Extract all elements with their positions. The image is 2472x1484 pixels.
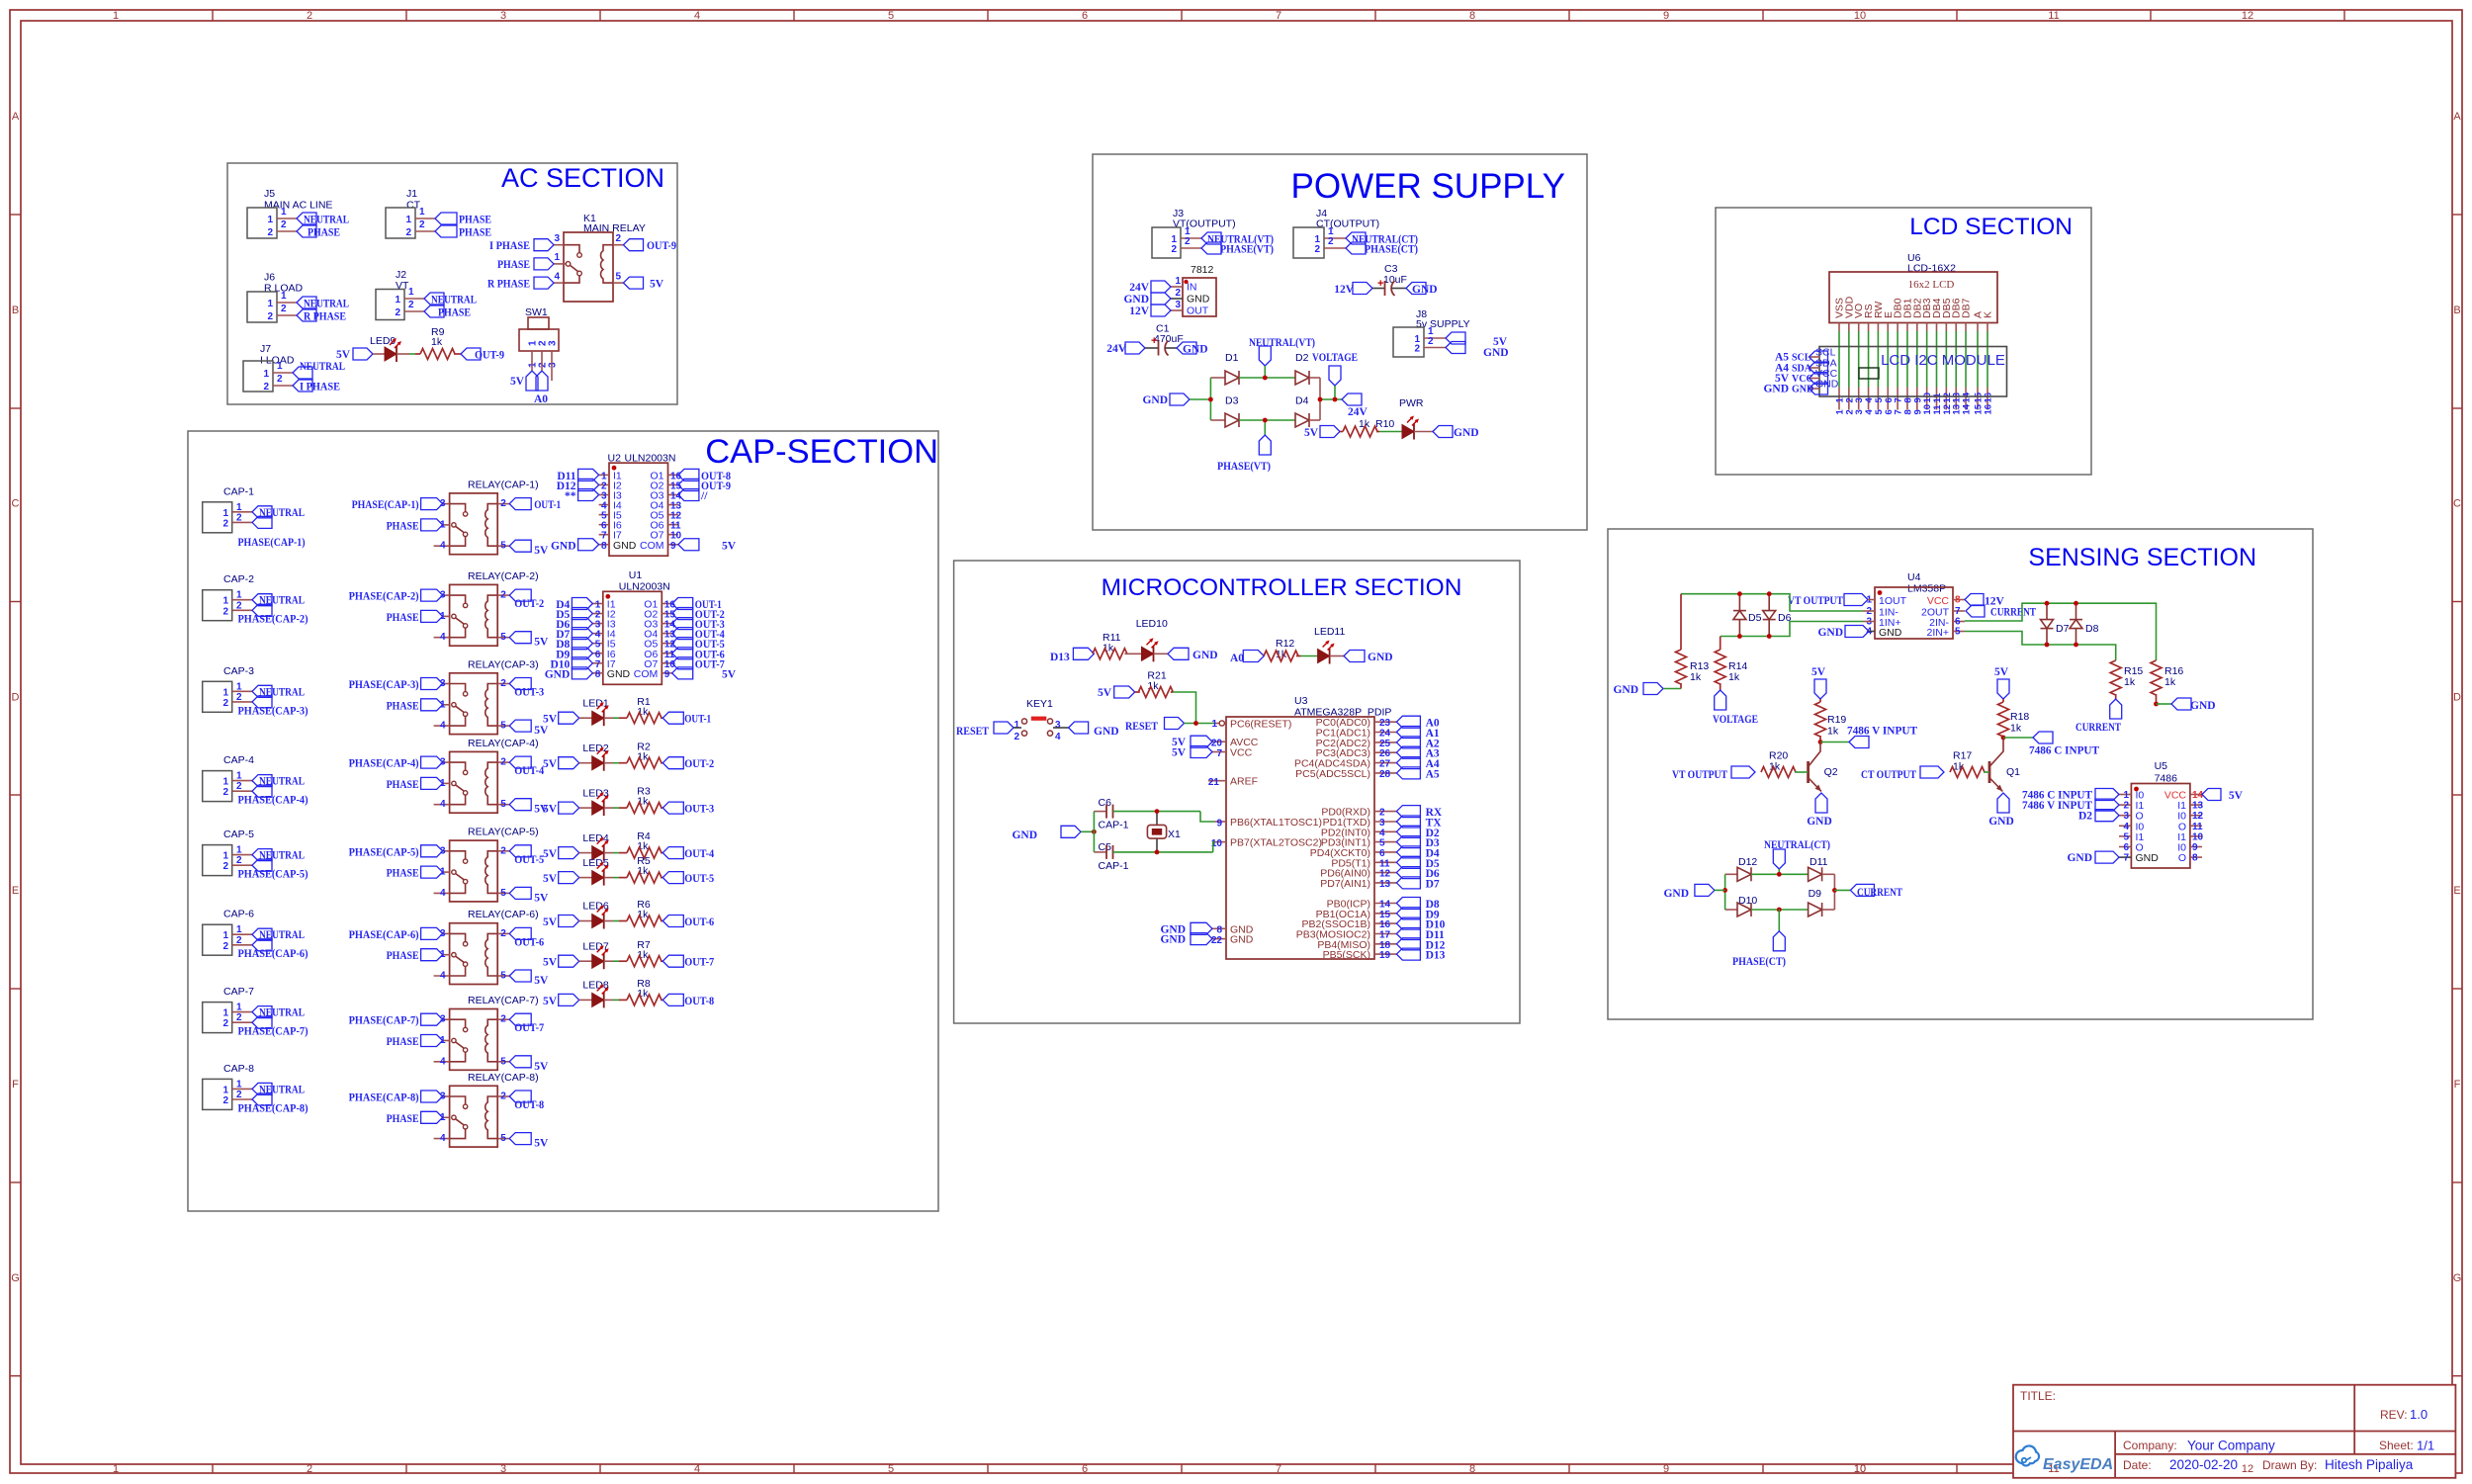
svg-text:VCC: VCC [1230, 747, 1253, 759]
RELAY(CAP-5) pin 4 [434, 892, 450, 894]
svg-text:4: 4 [440, 541, 446, 552]
svg-text:5V: 5V [1304, 427, 1319, 439]
I2C module pin SCL [1810, 356, 1820, 358]
svg-text:AREF: AREF [1230, 776, 1258, 788]
I2C module pin 9 stub [1916, 388, 1918, 410]
resistor R7 [619, 960, 627, 962]
svg-text:5: 5 [888, 10, 894, 22]
svg-text:2: 2 [616, 233, 622, 244]
svg-text:8: 8 [595, 669, 601, 680]
LED8 [592, 993, 604, 1006]
svg-text:2: 2 [236, 935, 242, 946]
svg-text:R19: R19 [1827, 714, 1846, 726]
net flag OUT-1 (U1.16) [672, 598, 693, 610]
svg-text:GND: GND [1160, 934, 1186, 946]
svg-text:RELAY(CAP-8): RELAY(CAP-8) [468, 1072, 539, 1084]
svg-text:PHASE(CAP-4): PHASE(CAP-4) [349, 758, 419, 770]
wire [1869, 631, 1875, 633]
svg-text:OUT-6: OUT-6 [514, 936, 544, 948]
EasyEDA logo [2016, 1445, 2039, 1465]
I2C module pin 1 stub [1838, 388, 1840, 410]
svg-text:1/1: 1/1 [2417, 1439, 2434, 1453]
wire [613, 877, 619, 879]
svg-text:4: 4 [1055, 732, 1061, 742]
svg-text:2: 2 [307, 10, 312, 22]
U3 pin 3 (PD1(TXD)) [1374, 821, 1396, 823]
svg-text:D11: D11 [1810, 856, 1828, 868]
U2 pin 16 (O1) [668, 474, 678, 476]
svg-text:U3: U3 [1294, 695, 1308, 707]
svg-text:1: 1 [1211, 719, 1217, 730]
svg-text:D2: D2 [2078, 811, 2092, 823]
svg-text:LED10: LED10 [1136, 618, 1168, 630]
U1 pin 15 (O2) [662, 613, 671, 615]
U3 pin 28 (PC5(ADC5SCL)) [1374, 772, 1396, 774]
svg-text:PHASE(CT): PHASE(CT) [1365, 244, 1418, 256]
RELAY(CAP-7) pin 4 [434, 1061, 450, 1063]
net flag NEUTRAL (CAP-4.1) [252, 775, 272, 787]
svg-text:NEUTRAL: NEUTRAL [300, 361, 345, 373]
svg-text:PHASE(CAP-2): PHASE(CAP-2) [238, 614, 309, 626]
SW1 pin 2 [541, 351, 543, 362]
svg-text:Drawn By:: Drawn By: [2262, 1458, 2317, 1472]
U2 pin 15 (O2) [668, 483, 678, 485]
net flag PHASE(CAP-7) (CAP-7.2) [252, 1016, 272, 1028]
frame column ticks [212, 10, 214, 21]
svg-text:10: 10 [1854, 10, 1866, 22]
J1 pin 2 [415, 230, 435, 232]
svg-text:8: 8 [1955, 595, 1961, 606]
U3 pin 18 (PB4(MISO)) [1374, 943, 1396, 945]
svg-text:5V: 5V [543, 848, 558, 860]
net flag OUT-4 (R4) [662, 847, 683, 859]
svg-text:A: A [12, 111, 20, 123]
CAP-1 pin 1 [232, 511, 252, 513]
wire [1330, 655, 1344, 657]
U3 pin 12 (PD6(AIN0)) [1374, 872, 1396, 874]
svg-text:5: 5 [500, 721, 506, 732]
svg-text:EasyEDA: EasyEDA [2043, 1456, 2113, 1473]
svg-text:PHASE: PHASE [387, 868, 419, 880]
svg-text:5V: 5V [534, 725, 549, 737]
svg-text:RESET: RESET [956, 726, 989, 738]
net flag OUT-6 (U1.11) [672, 648, 693, 659]
resistor R5 [619, 877, 627, 879]
svg-text:GND: GND [1183, 344, 1208, 356]
net flag D12 (U3.18) [1396, 938, 1420, 950]
wire (bridge right) [1319, 378, 1321, 420]
net flag OUT-2 [509, 589, 531, 601]
svg-text:OUT-5: OUT-5 [684, 873, 714, 885]
svg-text:1: 1 [113, 1463, 119, 1475]
svg-text:E: E [12, 885, 19, 897]
svg-text:2: 2 [307, 1463, 312, 1475]
K1 pin 2 [613, 244, 624, 246]
svg-text:OUT-3: OUT-3 [684, 804, 714, 816]
net flag NEUTRAL (CAP-7.1) [252, 1006, 272, 1018]
svg-text:1: 1 [236, 845, 242, 856]
svg-text:D13: D13 [1050, 652, 1070, 663]
LED11 [1318, 650, 1330, 663]
svg-text:CAP-2: CAP-2 [223, 573, 254, 585]
net flag OUT-8 (R8) [662, 994, 683, 1005]
CAP-3 pin 2 [232, 701, 252, 703]
U2 pin 12 (O5) [668, 514, 678, 516]
svg-text:CAP-6: CAP-6 [223, 909, 254, 920]
U3 pin 24 (PC1(ADC1)) [1374, 732, 1396, 734]
svg-text:2: 2 [222, 606, 228, 617]
K1 pin 4 [554, 282, 564, 284]
SW1 pin 3 [551, 351, 553, 362]
svg-text:I PHASE: I PHASE [300, 382, 340, 393]
svg-text:5V: 5V [722, 668, 737, 680]
svg-text:2: 2 [1185, 236, 1191, 247]
net flag NEUTRAL (J5.1) [297, 213, 316, 224]
wire [1868, 331, 1870, 388]
svg-text:9: 9 [1663, 1463, 1669, 1475]
svg-text:AC SECTION: AC SECTION [501, 163, 664, 193]
resistor R8 [619, 999, 627, 1001]
RELAY(CAP-7) contact [450, 1019, 466, 1027]
svg-text:4: 4 [440, 888, 446, 899]
net flag A0 (SW1.2) [536, 371, 548, 391]
svg-text:RELAY(CAP-3): RELAY(CAP-3) [468, 658, 539, 670]
svg-text:F: F [12, 1079, 19, 1091]
svg-text:8: 8 [2192, 853, 2198, 864]
svg-text:OUT-2: OUT-2 [514, 598, 544, 610]
svg-text:GND: GND [1192, 650, 1218, 661]
svg-text:4: 4 [440, 721, 446, 732]
net flag I PHASE (K1.3) [534, 239, 554, 251]
U3 pin 9 (PB6(XTAL1TOSC1)) [1214, 821, 1226, 823]
net flag PHASE [421, 699, 443, 711]
svg-text:K: K [1983, 311, 1994, 318]
net flag NEUTRAL (J7.1) [293, 367, 312, 379]
wire [613, 920, 619, 922]
svg-text:PHASE(CAP-5): PHASE(CAP-5) [349, 846, 419, 858]
net flag 5V (VCC) [1810, 373, 1828, 385]
svg-text:5: 5 [500, 1133, 506, 1144]
svg-text:28: 28 [1379, 769, 1391, 780]
net flag D11 (U3.17) [1396, 928, 1420, 940]
svg-text:2: 2 [281, 219, 287, 230]
I2C module pin 10 stub [1926, 388, 1928, 410]
svg-text:5: 5 [500, 799, 506, 810]
U5 pin 8 (O) [2190, 856, 2202, 858]
net flag GND (Q2) [1815, 793, 1827, 813]
svg-text:3: 3 [1055, 720, 1061, 731]
RELAY(CAP-4) pin 3 [443, 761, 450, 763]
svg-text:Hitesh Pipaliya: Hitesh Pipaliya [2325, 1457, 2414, 1472]
svg-text:CURRENT: CURRENT [1857, 887, 1902, 899]
svg-text:10uF: 10uF [1383, 274, 1407, 286]
svg-text:B: B [12, 305, 19, 316]
wire [604, 762, 613, 764]
U3 pin 22 (GND) [1212, 938, 1226, 940]
svg-text:VCC: VCC [1792, 374, 1813, 385]
net flag PHASE (K1.1) [534, 258, 554, 270]
svg-text:2: 2 [222, 861, 228, 872]
SENSING SECTION box [1608, 529, 2313, 1019]
svg-text:10: 10 [1854, 1463, 1866, 1475]
wire [1838, 331, 1840, 388]
svg-text:24V: 24V [1106, 343, 1127, 355]
svg-text:1: 1 [267, 215, 273, 225]
MICROCONTROLLER SECTION box [954, 561, 1520, 1023]
svg-text:OUT-5: OUT-5 [514, 854, 544, 866]
svg-text:1: 1 [236, 1003, 242, 1013]
svg-text:1: 1 [281, 291, 287, 302]
U1 pin 1 (I1) [592, 603, 602, 605]
svg-text:GND: GND [1483, 347, 1509, 359]
svg-text:1: 1 [405, 215, 411, 225]
svg-text:U5: U5 [2155, 760, 2168, 772]
svg-text:2: 2 [1328, 236, 1334, 247]
svg-text:LED11: LED11 [1314, 626, 1345, 638]
RELAY(CAP-2) pin 2 [497, 594, 509, 596]
net flag TX (U3.3) [1396, 816, 1420, 828]
svg-text:PHASE(CAP-8): PHASE(CAP-8) [238, 1102, 309, 1114]
svg-text:J5: J5 [264, 188, 275, 200]
svg-text:GND: GND [1454, 427, 1479, 439]
wire [1778, 910, 1780, 931]
svg-text:2: 2 [500, 757, 506, 768]
svg-text:Q2: Q2 [1824, 766, 1838, 778]
svg-text:2: 2 [222, 941, 228, 952]
RELAY(CAP-6) pin 5 [497, 975, 509, 977]
svg-text:COM: COM [634, 668, 659, 680]
svg-text:CAP-1: CAP-1 [1099, 860, 1129, 872]
svg-text:5V: 5V [543, 957, 558, 969]
svg-text:D: D [2453, 692, 2461, 704]
svg-text:1: 1 [419, 207, 425, 218]
U3 pin 27 (PC4(ADC4SDA)) [1374, 762, 1396, 764]
svg-text:1: 1 [222, 1008, 228, 1019]
wire [604, 960, 613, 962]
svg-text:PHASE(CAP-8): PHASE(CAP-8) [349, 1092, 419, 1104]
J7 pin 1 [273, 372, 293, 374]
svg-text:4: 4 [440, 971, 446, 982]
net flag NEUTRAL (CAP-1.1) [252, 506, 272, 518]
net flag A5 (SCL) [1810, 351, 1828, 363]
svg-text:CT(OUTPUT): CT(OUTPUT) [1316, 218, 1379, 230]
svg-text:5V: 5V [2229, 790, 2244, 802]
RELAY(CAP-2) pin 4 [434, 637, 450, 639]
RELAY(CAP-2) pin 5 [497, 637, 509, 639]
U4 pin 8 (VCC) [1953, 599, 1965, 601]
svg-text:1: 1 [222, 851, 228, 862]
svg-text:11: 11 [2048, 10, 2059, 22]
U3 pin 13 (PD7(AIN1)) [1374, 882, 1396, 884]
svg-text:OUT-8: OUT-8 [684, 996, 714, 1007]
svg-text:**: ** [565, 490, 576, 502]
net flag OUT-6 [509, 927, 531, 939]
net flag D3 (U3.5) [1396, 836, 1420, 848]
net flag PHASE (J2.2) [424, 306, 444, 317]
svg-text:1k: 1k [1690, 671, 1702, 683]
C3 symbol [1384, 281, 1386, 296]
svg-text:RESET: RESET [1125, 721, 1158, 733]
U2 pin 14 (O3) [668, 494, 678, 496]
svg-text:12V: 12V [1129, 306, 1150, 317]
I2C module pin 14 stub [1965, 388, 1967, 410]
svg-text:+: + [1151, 335, 1157, 347]
svg-text:8: 8 [601, 541, 607, 552]
CAP-5 pin 2 [232, 864, 252, 866]
svg-text:5: 5 [500, 1056, 506, 1067]
svg-text:2: 2 [222, 518, 228, 529]
wire [1334, 386, 1336, 399]
wire [1113, 811, 1201, 813]
U2 pin 4 (I4) [599, 504, 609, 506]
CAP-8 pin 1 [232, 1088, 252, 1090]
U3 pin 23 (PC0(ADC0)) [1374, 721, 1396, 723]
svg-text:22: 22 [1211, 935, 1223, 946]
svg-text:5: 5 [888, 1463, 894, 1475]
svg-text:11: 11 [2192, 822, 2203, 832]
net flag D8 (U1.5) [572, 638, 592, 650]
svg-text:5: 5 [616, 272, 622, 283]
svg-text:5: 5 [1955, 627, 1961, 638]
wire [1986, 331, 1988, 388]
svg-text:2: 2 [267, 227, 273, 238]
net flag D6 (U3.12) [1396, 867, 1420, 879]
I2C module pin 3 stub [1858, 388, 1860, 410]
svg-text:GND: GND [1123, 294, 1149, 306]
svg-text:16: 16 [1379, 919, 1391, 930]
wire [604, 852, 613, 854]
svg-text:5V: 5V [1098, 687, 1112, 699]
svg-text:2: 2 [236, 692, 242, 703]
CAP-1 pin 2 [232, 521, 252, 523]
wire [373, 353, 385, 355]
net flag A2 (U3.25) [1396, 737, 1420, 748]
svg-text:REV:: REV: [2380, 1408, 2408, 1422]
svg-text:PHASE: PHASE [459, 227, 491, 239]
net flag PHASE(VT) [1201, 242, 1221, 254]
svg-text:2: 2 [1414, 344, 1420, 355]
svg-text:SCL: SCL [1792, 353, 1811, 364]
svg-text:5: 5 [500, 971, 506, 982]
K1 pin 3 [554, 244, 564, 246]
svg-text:4: 4 [694, 1463, 700, 1475]
RELAY(CAP-1) pin 3 [443, 503, 450, 505]
net flag NEUTRAL(VT) [1201, 232, 1221, 244]
U3 pin 2 (PD0(RXD)) [1374, 811, 1396, 813]
net flag PHASE (J1.2) [435, 225, 457, 237]
svg-text:5V: 5V [336, 349, 351, 361]
net flag ** (U2.3) [578, 489, 599, 501]
svg-text:PHASE(CAP-6): PHASE(CAP-6) [349, 929, 419, 941]
net flag GND (U3.8) [1191, 922, 1212, 934]
RELAY(CAP-5) contact [450, 851, 466, 859]
net flag 5V [509, 887, 531, 899]
svg-text:PHASE: PHASE [387, 612, 419, 624]
svg-text:D: D [12, 692, 20, 704]
svg-text:2: 2 [236, 1012, 242, 1023]
svg-text:NEUTRAL: NEUTRAL [431, 295, 477, 306]
RELAY(CAP-4) coil [486, 762, 497, 805]
svg-text:RELAY(CAP-1): RELAY(CAP-1) [468, 479, 539, 490]
svg-text:2: 2 [236, 600, 242, 611]
svg-text:6: 6 [2123, 842, 2129, 853]
U5 pin 12 (I0) [2190, 815, 2202, 817]
U3 pin 14 (PB0(ICP)) [1374, 903, 1396, 905]
svg-text:RELAY(CAP-7): RELAY(CAP-7) [468, 995, 539, 1006]
svg-text:LM358P: LM358P [1907, 583, 1946, 595]
svg-text:5V: 5V [1172, 747, 1187, 759]
CAP-4 pin 1 [232, 780, 252, 782]
svg-text:LED4: LED4 [582, 832, 608, 844]
net flag A5 (U3.28) [1396, 767, 1420, 779]
net flag PHASE(CAP-8) [421, 1091, 443, 1102]
wire [1320, 398, 1342, 400]
net flag OUT-9 (U2.15) [678, 479, 699, 490]
svg-text:GND: GND [551, 540, 576, 552]
svg-text:5: 5 [2123, 831, 2129, 842]
svg-text:1k: 1k [1728, 671, 1740, 683]
RELAY(CAP-1) coil [486, 504, 497, 547]
LED10 [1142, 647, 1154, 660]
U4 pin 7 (2OUT) [1953, 610, 1965, 612]
svg-text:OUT-9: OUT-9 [647, 240, 676, 252]
svg-text:12: 12 [2192, 811, 2204, 822]
svg-text:PHASE(CAP-7): PHASE(CAP-7) [349, 1015, 419, 1027]
net flag D9 (U1.6) [572, 648, 592, 659]
RELAY(CAP-8) pin 2 [497, 1095, 509, 1097]
net flag 7486 V INPUT (U5.2) [2095, 799, 2119, 811]
svg-text:2: 2 [2123, 801, 2129, 812]
svg-text:D4: D4 [1295, 395, 1309, 407]
wire (bridge right) [1833, 874, 1835, 910]
net flag OUT-1 (R1) [662, 712, 683, 724]
svg-text:SDA: SDA [1792, 364, 1812, 375]
I2C module pin 5 stub [1877, 388, 1879, 410]
net flag PHASE [421, 610, 443, 622]
svg-text:CAP-5: CAP-5 [223, 829, 254, 840]
svg-text:D8: D8 [2085, 623, 2099, 635]
net flag OUT-7 [509, 1013, 531, 1025]
svg-text:D1: D1 [1225, 352, 1239, 364]
svg-text:LED1: LED1 [582, 697, 608, 709]
I2C module pin 16 stub [1986, 388, 1988, 410]
wire [1926, 331, 1928, 388]
CAP-2 pin 2 [232, 609, 252, 611]
K1 pin 1 [554, 263, 566, 265]
I2C module pin VCC [1810, 378, 1820, 380]
svg-text:J1: J1 [406, 188, 417, 200]
svg-text:5V: 5V [543, 873, 558, 885]
wire [1154, 653, 1169, 655]
net flag NEUTRAL (J6.1) [297, 297, 316, 308]
U5 pin 10 (I1) [2190, 835, 2202, 837]
SW1 pin 1 [531, 351, 533, 362]
RELAY(CAP-5) pin 2 [497, 850, 509, 852]
svg-text:16: 16 [1984, 404, 1994, 415]
svg-text:7486 C INPUT: 7486 C INPUT [2029, 745, 2099, 757]
svg-text:GND: GND [1817, 627, 1843, 639]
J7 pin 2 [273, 385, 293, 387]
svg-text:1: 1 [222, 930, 228, 941]
wire [579, 852, 592, 854]
CAP-4 pin 2 [232, 790, 252, 792]
U1 pin 14 (O3) [662, 623, 671, 625]
wire [409, 353, 415, 355]
RELAY(CAP-7) pin 1 [443, 1040, 450, 1042]
RELAY(CAP-6) pin 3 [443, 932, 450, 934]
K1 pin 5 [613, 282, 624, 284]
I2C module pin 8 stub [1906, 388, 1908, 410]
